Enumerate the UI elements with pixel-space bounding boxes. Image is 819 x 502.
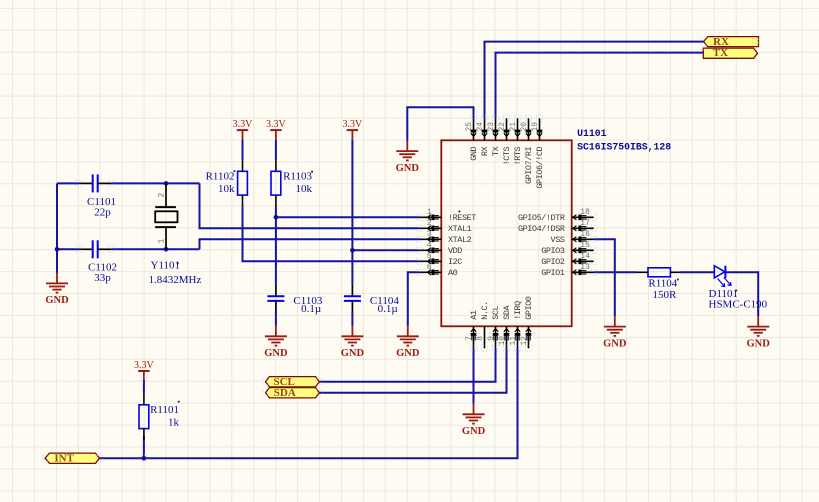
- svg-text:RX: RX: [480, 146, 490, 156]
- pin 1 !RESET: [419, 208, 476, 223]
- svg-text:GND: GND: [603, 338, 627, 349]
- svg-text:SCL: SCL: [491, 305, 501, 319]
- svg-text:5: 5: [427, 252, 432, 261]
- resistor R1101: [139, 394, 180, 440]
- svg-text:2: 2: [427, 219, 432, 228]
- svg-text:2: 2: [157, 193, 166, 198]
- power 3.3V above R1103: [266, 119, 287, 140]
- wire R1102 to I2C pin 5: [243, 206, 420, 261]
- wire GPIO1 pin 13 to R1104: [594, 271, 637, 273]
- wire VDD node to pin 4: [352, 249, 419, 251]
- svg-text:GPIO1: GPIO1: [541, 268, 565, 278]
- wire C1104 to ground: [351, 312, 353, 326]
- pin 24 RX: [476, 118, 490, 156]
- pin 8 N.C.: [476, 301, 490, 348]
- svg-text:33p: 33p: [94, 272, 111, 284]
- pin 9 SCL: [487, 305, 501, 348]
- svg-text:20: 20: [520, 122, 529, 132]
- junction crystal bottom node: [164, 247, 169, 252]
- capacitor C1103: [267, 285, 322, 315]
- svg-text:R1102: R1102: [206, 170, 235, 182]
- wire XTAL1 to pin 2: [200, 183, 420, 228]
- svg-text:1: 1: [157, 239, 166, 244]
- pin 10 SDA: [498, 304, 512, 348]
- wire gnd drop left: [56, 249, 58, 273]
- svg-text:N.C.: N.C.: [480, 301, 490, 320]
- svg-text:22p: 22p: [94, 206, 111, 218]
- wire GND net from pin 25 to ground: [407, 107, 473, 140]
- pin 6 A0: [419, 263, 457, 278]
- svg-text:1.8432MHz: 1.8432MHz: [149, 274, 202, 286]
- port INT: [45, 453, 99, 465]
- svg-text:A0: A0: [448, 268, 458, 278]
- ground left crystal: [45, 273, 69, 306]
- capacitor C1104: [344, 285, 399, 315]
- wire XTAL2 bottom segment right: [111, 248, 199, 250]
- svg-text:150R: 150R: [652, 289, 677, 301]
- pin 17 GPIO4/!DSR: [518, 219, 594, 234]
- ground under D1101: [747, 316, 771, 349]
- power 3.3V above R1101: [134, 360, 155, 381]
- wire 3.3V to R1101: [143, 380, 145, 394]
- wire A1 pin 7 to ground: [473, 348, 475, 403]
- capacitor C1102: [79, 240, 117, 284]
- svg-text:3.3V: 3.3V: [134, 360, 155, 371]
- svg-text:GND: GND: [264, 348, 288, 359]
- wire XTAL2 to pin 3: [200, 239, 420, 249]
- pin 7 A1: [465, 310, 479, 348]
- svg-text:GND: GND: [341, 348, 365, 359]
- svg-text:17: 17: [580, 219, 590, 228]
- svg-text:GND: GND: [462, 426, 486, 437]
- resistor R1104: [637, 268, 680, 301]
- wire A0 pin 6 to ground: [408, 272, 420, 325]
- svg-text:10k: 10k: [218, 183, 235, 195]
- svg-text:INT: INT: [54, 453, 74, 465]
- pin 2 XTAL1: [419, 219, 471, 234]
- svg-text:GPIO7/RI: GPIO7/RI: [524, 146, 534, 184]
- svg-text:SDA: SDA: [502, 304, 512, 319]
- wire 3.3V to R1103: [275, 140, 277, 161]
- pin 12 GPIO0: [520, 296, 534, 348]
- capacitor C1101: [79, 174, 116, 218]
- wire R1101 to INT net: [143, 436, 145, 458]
- svg-text:3.3V: 3.3V: [233, 119, 254, 130]
- port RX: [704, 36, 759, 48]
- pin 25 GND: [465, 118, 479, 160]
- port SDA: [266, 387, 320, 399]
- svg-text:25: 25: [465, 122, 474, 132]
- wire left vertical C1101-C1102: [56, 183, 58, 249]
- svg-text:R1103: R1103: [283, 170, 312, 182]
- pin 22 !CTS: [498, 118, 512, 165]
- wire RESET node down to C1103: [275, 217, 277, 285]
- svg-text:3: 3: [427, 230, 432, 239]
- svg-text:14: 14: [580, 252, 590, 261]
- pin 21 !RTS: [509, 118, 523, 165]
- svg-text:1: 1: [427, 208, 432, 217]
- svg-text:GND: GND: [45, 295, 69, 306]
- junction VDD node: [350, 248, 355, 253]
- svg-text:18: 18: [580, 208, 590, 217]
- ground under C1104: [341, 326, 365, 359]
- svg-text:1k: 1k: [168, 416, 180, 428]
- junction INT / R1101 node: [142, 456, 147, 461]
- svg-text:GPIO0: GPIO0: [524, 296, 534, 320]
- svg-text:SC16IS750IBS,128: SC16IS750IBS,128: [577, 141, 671, 152]
- wire RESET to pin 1: [276, 216, 419, 218]
- svg-text:9: 9: [487, 336, 496, 341]
- resistor R1102: [206, 160, 248, 206]
- svg-text:GND: GND: [747, 338, 771, 349]
- pin 15 GPIO3: [541, 241, 593, 256]
- svg-text:24: 24: [476, 122, 485, 132]
- svg-text:13: 13: [580, 263, 590, 272]
- svg-text:10k: 10k: [296, 183, 313, 195]
- svg-text:GPIO3: GPIO3: [541, 246, 565, 256]
- svg-text:3.3V: 3.3V: [266, 119, 287, 130]
- svg-text:XTAL1: XTAL1: [448, 224, 472, 234]
- svg-text:VSS: VSS: [551, 235, 565, 245]
- svg-text:0.1µ: 0.1µ: [301, 303, 321, 315]
- crystal Y1101: [149, 183, 202, 286]
- svg-text:23: 23: [487, 122, 496, 132]
- svg-text:11: 11: [509, 336, 518, 346]
- ground top near pin 25: [396, 141, 420, 174]
- svg-text:!CTS: !CTS: [502, 146, 512, 165]
- svg-text:SDA: SDA: [274, 387, 296, 399]
- pin 19 GPIO6/!CD: [531, 118, 545, 188]
- pin 20 GPIO7/RI: [520, 118, 534, 184]
- ground under C1103: [264, 326, 288, 359]
- svg-text:GPIO4/!DSR: GPIO4/!DSR: [518, 224, 565, 234]
- svg-text:I2C: I2C: [448, 257, 462, 267]
- ground under A1: [462, 404, 486, 437]
- wire D1101 to ground: [725, 272, 758, 316]
- svg-text:0.1µ: 0.1µ: [378, 303, 398, 315]
- svg-text:R1101: R1101: [150, 404, 179, 416]
- svg-text:!IRQ: !IRQ: [513, 301, 523, 320]
- wire RX net: [485, 42, 704, 119]
- wire XTAL2 bottom segment left: [57, 248, 79, 250]
- junction left gnd branch: [55, 247, 60, 252]
- ground under A0: [396, 326, 420, 359]
- svg-text:RX: RX: [713, 36, 729, 48]
- wire SCL port to pin 9: [319, 348, 495, 381]
- svg-text:TX: TX: [491, 146, 501, 156]
- wire R1104 to D1101: [680, 271, 715, 273]
- svg-text:TX: TX: [713, 47, 728, 59]
- svg-text:GND: GND: [396, 163, 420, 174]
- wire XTAL1 top segment left: [57, 182, 79, 184]
- pin 5 I2C: [419, 252, 462, 267]
- op-amp U1101 SC16IS750IBS body: [441, 140, 571, 326]
- svg-text:15: 15: [580, 241, 590, 250]
- pin 13 GPIO1: [541, 263, 593, 278]
- svg-text:7: 7: [465, 336, 474, 341]
- ground under VSS: [603, 316, 627, 349]
- svg-text:GND: GND: [396, 348, 420, 359]
- pin 23 TX: [487, 118, 501, 156]
- svg-text:22: 22: [498, 122, 507, 132]
- pin 4 VDD: [419, 241, 462, 256]
- power 3.3V VDD rail: [343, 119, 364, 140]
- svg-text:GPIO6/!CD: GPIO6/!CD: [535, 146, 545, 188]
- wire XTAL1 top segment right: [111, 182, 199, 184]
- svg-text:12: 12: [520, 336, 529, 346]
- svg-text:4: 4: [427, 241, 432, 250]
- svg-text:Y1101: Y1101: [151, 259, 181, 271]
- wire INT net: [100, 348, 518, 458]
- svg-text:XTAL2: XTAL2: [448, 235, 472, 245]
- pin 16 VSS: [551, 230, 594, 245]
- svg-text:3.3V: 3.3V: [343, 119, 364, 130]
- wire VSS pin 16 to ground: [594, 239, 615, 316]
- wire 3.3V rail to VDD node: [351, 140, 353, 251]
- svg-text:GPIO5/!DTR: GPIO5/!DTR: [518, 213, 565, 223]
- svg-text:10: 10: [498, 336, 507, 346]
- wire SDA port to pin 10: [319, 348, 506, 392]
- wire 3.3V to R1102: [242, 140, 244, 161]
- LED D1101: [709, 266, 768, 311]
- wire C1103 to ground: [275, 312, 277, 326]
- svg-text:!RESET: !RESET: [448, 213, 476, 223]
- svg-text:HSMC-C190: HSMC-C190: [709, 298, 768, 310]
- svg-text:19: 19: [531, 122, 540, 132]
- junction RESET node: [274, 215, 279, 220]
- svg-text:GPIO2: GPIO2: [541, 257, 565, 267]
- wire VDD node down to C1104: [351, 250, 353, 285]
- wire TX net: [496, 53, 704, 119]
- port SCL: [266, 376, 320, 388]
- power 3.3V above R1102: [233, 119, 254, 140]
- pin 14 GPIO2: [541, 252, 593, 267]
- svg-text:R1104: R1104: [648, 278, 677, 290]
- pin 18 GPIO5/!DTR: [518, 208, 594, 223]
- pin 3 XTAL2: [419, 230, 471, 245]
- svg-text:U1101: U1101: [577, 128, 607, 139]
- pin 11 !IRQ: [509, 301, 523, 348]
- svg-text:16: 16: [580, 230, 590, 239]
- svg-text:!RTS: !RTS: [513, 146, 523, 165]
- wire R1103 to RESET node: [275, 206, 277, 217]
- svg-text:GND: GND: [469, 146, 479, 160]
- svg-text:6: 6: [427, 263, 432, 272]
- resistor R1103: [271, 160, 313, 206]
- svg-text:21: 21: [509, 122, 518, 132]
- junction crystal top node: [164, 181, 169, 186]
- svg-text:A1: A1: [469, 310, 479, 320]
- svg-text:8: 8: [476, 336, 485, 341]
- port TX: [703, 47, 757, 59]
- svg-text:VDD: VDD: [448, 246, 462, 256]
